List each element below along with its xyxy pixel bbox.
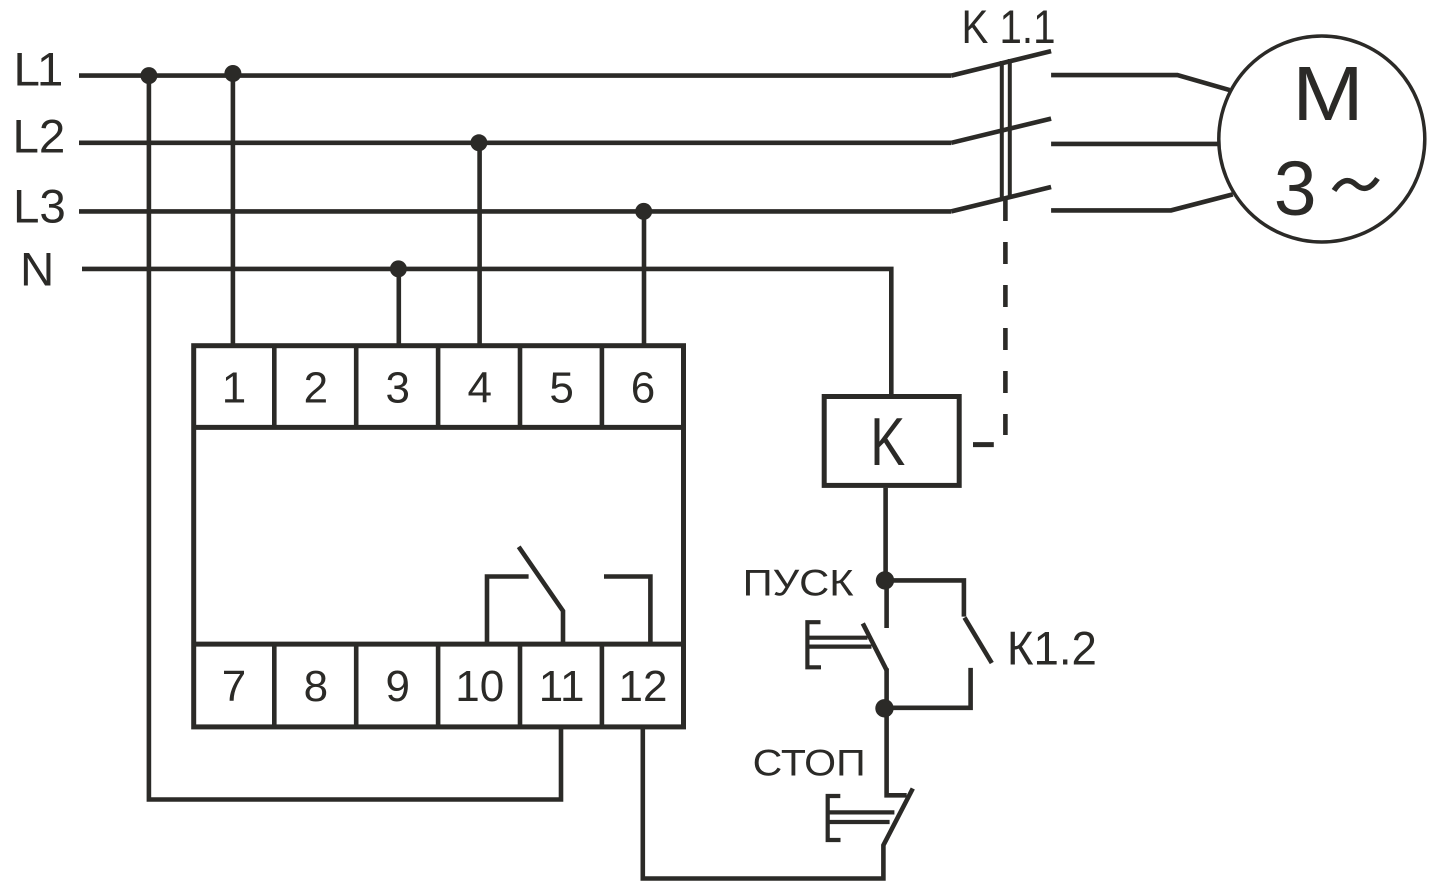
svg-text:L3: L3 [13, 181, 66, 234]
svg-text:K: K [870, 404, 905, 480]
svg-text:3: 3 [1274, 146, 1317, 232]
svg-text:3: 3 [386, 364, 410, 413]
svg-text:1: 1 [222, 364, 246, 413]
svg-text:M: M [1292, 51, 1364, 137]
svg-text:2: 2 [304, 364, 328, 413]
svg-text:ПУСК: ПУСК [743, 563, 855, 604]
svg-text:8: 8 [304, 662, 328, 711]
svg-text:L2: L2 [13, 111, 66, 164]
svg-text:7: 7 [222, 662, 246, 711]
svg-text:5: 5 [549, 364, 573, 413]
svg-text:12: 12 [619, 662, 668, 711]
svg-text:6: 6 [631, 364, 655, 413]
svg-text:L1: L1 [14, 44, 62, 97]
svg-text:9: 9 [386, 662, 410, 711]
svg-text:10: 10 [455, 662, 504, 711]
svg-text:К1.2: К1.2 [1007, 622, 1097, 675]
svg-text:4: 4 [467, 364, 491, 413]
svg-text:11: 11 [539, 662, 585, 711]
svg-text:СТОП: СТОП [753, 742, 866, 783]
svg-text:N: N [20, 244, 54, 297]
svg-text:K 1.1: K 1.1 [962, 0, 1056, 53]
